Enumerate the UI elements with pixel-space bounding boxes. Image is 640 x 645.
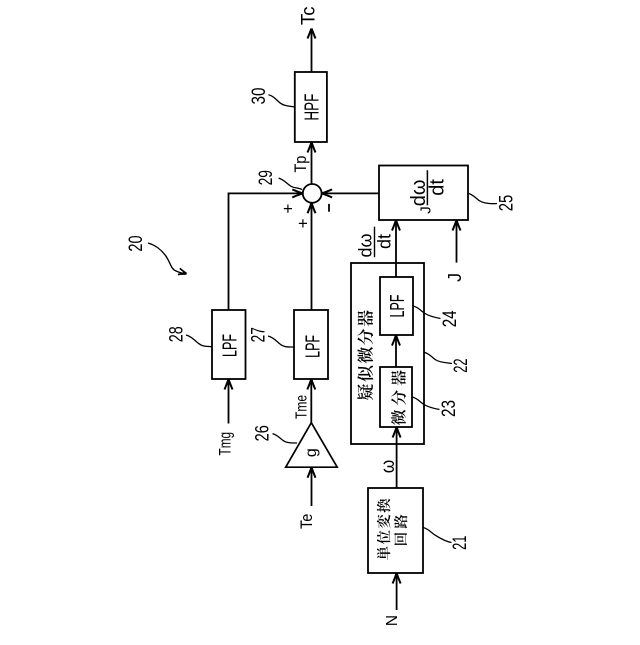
svg-text:J: J — [418, 206, 435, 214]
svg-text:27: 27 — [249, 327, 270, 342]
svg-text:20: 20 — [126, 235, 147, 251]
svg-text:dt: dt — [375, 234, 395, 249]
svg-text:Tmg: Tmg — [216, 432, 235, 456]
svg-text:N: N — [384, 615, 401, 626]
svg-text:28: 28 — [167, 326, 188, 342]
svg-text:HPF: HPF — [302, 94, 324, 121]
svg-text:dt: dt — [427, 179, 449, 196]
svg-text:26: 26 — [253, 425, 274, 441]
svg-text:Tme: Tme — [294, 395, 311, 419]
svg-text:22: 22 — [451, 358, 472, 372]
svg-text:21: 21 — [450, 536, 471, 550]
svg-text:Te: Te — [298, 514, 316, 530]
svg-text:g: g — [303, 448, 320, 457]
svg-text:+: + — [294, 218, 313, 228]
svg-text:ω: ω — [378, 460, 399, 474]
svg-text:LPF: LPF — [303, 335, 325, 358]
svg-text:25: 25 — [496, 195, 517, 212]
svg-text:Tp: Tp — [291, 156, 310, 173]
svg-text:LPF: LPF — [219, 334, 241, 357]
svg-text:dω: dω — [355, 233, 375, 257]
svg-text:30: 30 — [249, 88, 270, 105]
svg-text:LPF: LPF — [387, 295, 409, 318]
svg-text:Tc: Tc — [299, 7, 320, 26]
svg-text:24: 24 — [440, 310, 461, 327]
svg-text:+: + — [278, 204, 297, 214]
svg-text:23: 23 — [439, 400, 460, 417]
svg-text:29: 29 — [256, 170, 277, 185]
svg-text:J: J — [445, 273, 465, 282]
